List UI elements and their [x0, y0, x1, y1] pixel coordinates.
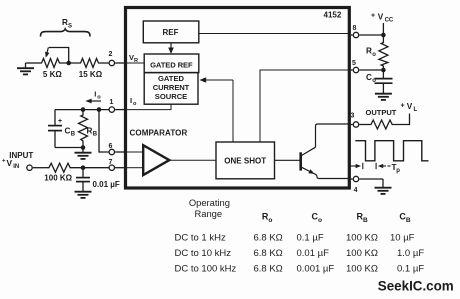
- svg-text:CC: CC: [385, 18, 394, 24]
- brace over RS: [41, 29, 91, 37]
- node dot RB top: [81, 107, 86, 112]
- label RS: [62, 18, 72, 29]
- svg-text:GATED REF: GATED REF: [150, 61, 193, 70]
- Tp dimension arrows: [350, 165, 357, 167]
- table: operating range: [189, 197, 411, 224]
- svg-text:REF: REF: [163, 28, 179, 37]
- svg-text:V: V: [7, 158, 13, 168]
- arrow into GATED CURRENT SOURCE from one-shot: [204, 79, 233, 81]
- ground GND1 (RS left): [25, 63, 27, 68]
- svg-text:10 µF: 10 µF: [390, 233, 415, 244]
- svg-text:CURRENT: CURRENT: [153, 83, 190, 92]
- ground GND5 (pin4): [375, 187, 392, 189]
- svg-text:8: 8: [353, 25, 357, 32]
- potentiometer 5K: [40, 59, 61, 68]
- transistor Q1: [275, 159, 301, 161]
- pin 2: [109, 60, 114, 65]
- resistor output load: [370, 120, 396, 129]
- pin 5: [353, 67, 358, 72]
- svg-text:+: +: [2, 159, 6, 165]
- svg-text:DC to 10 kHz: DC to 10 kHz: [175, 248, 232, 259]
- svg-text:o: o: [372, 52, 376, 58]
- svg-text:1: 1: [110, 99, 114, 106]
- GATED REF block: [144, 54, 199, 73]
- ONE SHOT block: [216, 142, 275, 179]
- svg-text:0.01 µF: 0.01 µF: [93, 180, 120, 189]
- label Io inside IC: [130, 96, 137, 107]
- svg-text:C: C: [65, 127, 71, 136]
- svg-text:+: +: [58, 118, 62, 125]
- label +VIN: [2, 158, 19, 170]
- arrow Io: [89, 100, 101, 102]
- svg-text:4152: 4152: [324, 11, 342, 20]
- svg-text:o: o: [133, 101, 137, 107]
- svg-text:INPUT: INPUT: [9, 151, 33, 160]
- wire pin4 to ground: [359, 178, 383, 180]
- GATED CURRENT SOURCE block: [144, 73, 198, 105]
- input terminal: [27, 165, 32, 170]
- svg-text:15 KΩ: 15 KΩ: [79, 70, 103, 79]
- capacitor Co: [382, 70, 384, 78]
- label VR inside IC: [129, 53, 138, 64]
- wire one-shot top to arrow: [232, 80, 234, 142]
- svg-text:o: o: [97, 95, 101, 101]
- svg-text:SeekIC.com: SeekIC.com: [378, 279, 454, 294]
- svg-text:R: R: [366, 47, 372, 56]
- svg-text:6: 6: [109, 143, 113, 150]
- node dot pin6 branch: [97, 107, 102, 112]
- svg-text:0.01 µF: 0.01 µF: [297, 248, 330, 259]
- svg-text:I: I: [130, 96, 132, 105]
- wire pot to 15K: [61, 62, 80, 64]
- svg-text:B: B: [406, 217, 411, 224]
- svg-text:100 KΩ: 100 KΩ: [346, 263, 378, 274]
- svg-text:o: o: [372, 78, 376, 84]
- svg-text:5 KΩ: 5 KΩ: [43, 70, 62, 79]
- svg-text:B: B: [71, 132, 76, 138]
- arrow REF to GATED REF: [170, 43, 172, 49]
- wire pin6 branch: [99, 110, 109, 152]
- svg-text:R: R: [134, 58, 138, 64]
- svg-text:B: B: [93, 132, 98, 138]
- wire Io rail: [55, 109, 109, 111]
- svg-text:DC to 1 kHz: DC to 1 kHz: [175, 233, 226, 244]
- wire pin5 to one-shot top: [260, 70, 348, 142]
- pin 4: [353, 176, 358, 181]
- resistor Ro: [379, 35, 388, 70]
- capacitor CB: [54, 110, 56, 125]
- IC 4152 outline: [126, 8, 350, 189]
- svg-text:+: +: [371, 13, 375, 20]
- wire 15K to pin 2: [100, 62, 109, 64]
- svg-text:100 KΩ: 100 KΩ: [346, 233, 378, 244]
- wire node up to +Vcc: [382, 23, 384, 35]
- svg-text:V: V: [378, 13, 384, 22]
- pot wiper arrow: [49, 48, 69, 64]
- wire pin3 to output resistor: [359, 124, 369, 126]
- wire CB bottom to RB bottom: [55, 147, 83, 149]
- svg-text:5: 5: [352, 60, 356, 67]
- svg-text:o: o: [268, 217, 272, 224]
- svg-text:6.8 KΩ: 6.8 KΩ: [254, 263, 283, 274]
- capacitor 0.01uF: [82, 168, 84, 177]
- svg-text:+: +: [401, 103, 405, 110]
- wire terminal to 100K: [33, 167, 47, 169]
- svg-text:6.8 KΩ: 6.8 KΩ: [254, 248, 283, 259]
- wire pin2 to GATED REF: [124, 62, 144, 64]
- pin 8: [353, 32, 358, 37]
- REF block U-REF: [143, 21, 199, 43]
- svg-text:6.8 KΩ: 6.8 KΩ: [254, 233, 283, 244]
- svg-text:100 KΩ: 100 KΩ: [44, 173, 72, 182]
- svg-text:1.0 µF: 1.0 µF: [397, 248, 424, 259]
- svg-text:0.1 µF: 0.1 µF: [397, 263, 424, 274]
- label Tp: [392, 163, 401, 174]
- svg-text:S: S: [68, 24, 72, 30]
- pin 6: [109, 149, 114, 154]
- node dot RB bottom: [81, 145, 86, 150]
- svg-text:I: I: [94, 90, 96, 99]
- resistor RB: [79, 110, 88, 148]
- svg-text:3: 3: [351, 113, 355, 120]
- svg-text:o: o: [318, 217, 322, 224]
- svg-text:L: L: [414, 107, 418, 113]
- svg-text:4: 4: [354, 187, 358, 194]
- resistor 15K: [80, 59, 100, 68]
- svg-text:B: B: [363, 217, 368, 224]
- svg-text:p: p: [396, 168, 400, 174]
- svg-text:OUTPUT: OUTPUT: [366, 108, 397, 117]
- svg-text:0.1 µF: 0.1 µF: [297, 233, 324, 244]
- svg-text:COMPARATOR: COMPARATOR: [130, 129, 188, 138]
- resistor 100K: [47, 163, 72, 172]
- svg-text:GATED: GATED: [158, 74, 185, 83]
- svg-text:7: 7: [109, 159, 113, 166]
- svg-text:V: V: [407, 102, 413, 111]
- label +VL: [401, 102, 418, 113]
- wire output resistor to +VL: [395, 114, 410, 125]
- svg-text:Range: Range: [194, 208, 222, 219]
- ground GND4 (Co): [375, 93, 392, 95]
- svg-text:ONE SHOT: ONE SHOT: [224, 156, 266, 165]
- wire ground to pot: [26, 62, 41, 64]
- svg-text:100 KΩ: 100 KΩ: [346, 248, 378, 259]
- wire comparator input -: [127, 167, 143, 169]
- wire 100K to pin 7: [72, 167, 109, 169]
- svg-text:DC to 100 kHz: DC to 100 kHz: [175, 263, 237, 274]
- svg-text:Operating: Operating: [189, 197, 230, 208]
- svg-text:SOURCE: SOURCE: [155, 92, 188, 101]
- svg-text:C: C: [366, 73, 372, 82]
- pin 7: [109, 165, 114, 170]
- svg-text:R: R: [87, 127, 93, 136]
- waveform output pulses: [355, 141, 428, 161]
- wire comparator output to one shot: [169, 159, 216, 161]
- node dot Vcc: [381, 33, 386, 38]
- node dot Co top: [381, 68, 386, 73]
- svg-text:2: 2: [109, 51, 113, 58]
- ground GND2 (RB): [82, 148, 84, 153]
- pin 1: [109, 107, 114, 112]
- wire REF to pin 8: [199, 33, 348, 35]
- wire comparator input +: [127, 151, 143, 153]
- ground GND3 (0.01uF): [75, 191, 92, 193]
- node dot pot/15K junction: [66, 61, 71, 66]
- wire pin5 to Ro/Co node: [359, 69, 383, 71]
- wire pin8 to Vcc node: [359, 34, 383, 36]
- wire pin1 to gated current source bottom: [124, 104, 171, 109]
- svg-text:IN: IN: [13, 164, 19, 170]
- node dot input/cap junction: [81, 165, 86, 170]
- label +VCC: [371, 13, 394, 24]
- svg-text:0.001 µF: 0.001 µF: [297, 263, 335, 274]
- pin 3: [353, 122, 358, 127]
